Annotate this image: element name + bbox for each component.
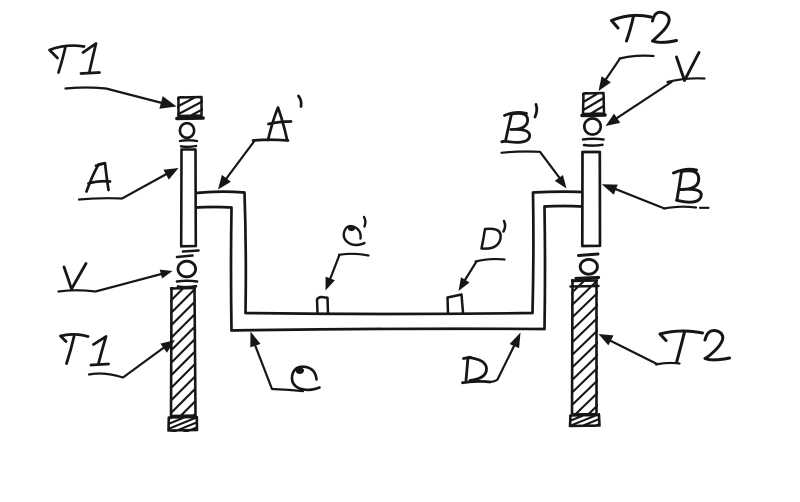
label D — [463, 357, 491, 383]
washer lens above T1 bar — [177, 281, 197, 287]
label A' — [253, 96, 301, 141]
hatched bar T2 (bottom) — [569, 253, 600, 433]
tab D' on channel — [448, 295, 464, 314]
leader arrow from label T1 to top tab — [66, 88, 165, 104]
thick line above T2 bar — [576, 278, 599, 279]
leader arrow from label B' to channel arm — [502, 151, 564, 182]
vertical bar A — [181, 150, 196, 247]
leader arrow from label D' to tab — [462, 259, 505, 285]
hatched bar T1 (bottom) — [168, 261, 198, 441]
leader arrow from label V to roller circle — [59, 273, 168, 292]
label B — [674, 169, 702, 202]
leader arrow from label V to roller circle — [611, 78, 705, 122]
label C' (script) — [344, 217, 366, 245]
label C (script) — [292, 367, 320, 390]
leader arrow from label T2 to top tab — [602, 56, 654, 85]
leader arrow from label A' to channel arm — [223, 142, 254, 184]
washer lens above bar A — [180, 140, 197, 147]
label V (left) — [64, 264, 86, 290]
label T1 (top left) — [50, 44, 100, 74]
short line under bar B — [579, 254, 599, 256]
label A — [87, 163, 111, 191]
roller circle V (left) — [178, 261, 196, 277]
wire channel outer contour (bottom line) — [196, 206, 582, 331]
leader arrow from label T1 to hatched bar — [89, 345, 168, 378]
leader arrow from label D to channel corner — [490, 343, 516, 382]
tab C' on channel — [317, 297, 328, 313]
hatched end cap of T2 bar — [567, 403, 602, 437]
roller circle below T1 top tab — [180, 123, 194, 138]
leader arrow from label B to bar B — [610, 187, 709, 209]
washer lens above bar B — [583, 139, 604, 146]
leader arrow from label A to bar A — [79, 171, 172, 200]
leader arrow from label C' to tab — [328, 254, 369, 285]
leader arrow from label T2 to hatched bar — [604, 338, 680, 365]
wire channel inner contour (A'-C-D-B' top line) — [196, 192, 582, 314]
roller circle below T2 top tab — [584, 119, 600, 135]
label T2 (bottom right) — [660, 331, 730, 363]
leader arrow from label C to channel corner — [253, 339, 304, 392]
label V (right) — [677, 53, 700, 81]
short line under bar A — [177, 251, 199, 258]
label D' — [482, 221, 506, 249]
vertical bar B — [582, 152, 600, 246]
roller circle V (right, lower) — [580, 259, 597, 274]
label B' — [502, 105, 537, 143]
label T2 (top right) — [612, 12, 677, 42]
label T1 (bottom left) — [61, 334, 109, 365]
hatched tab T1 (top) — [175, 84, 205, 124]
hatched end cap of T1 bar — [166, 406, 200, 440]
hatched tab T2 (top) — [580, 80, 607, 128]
